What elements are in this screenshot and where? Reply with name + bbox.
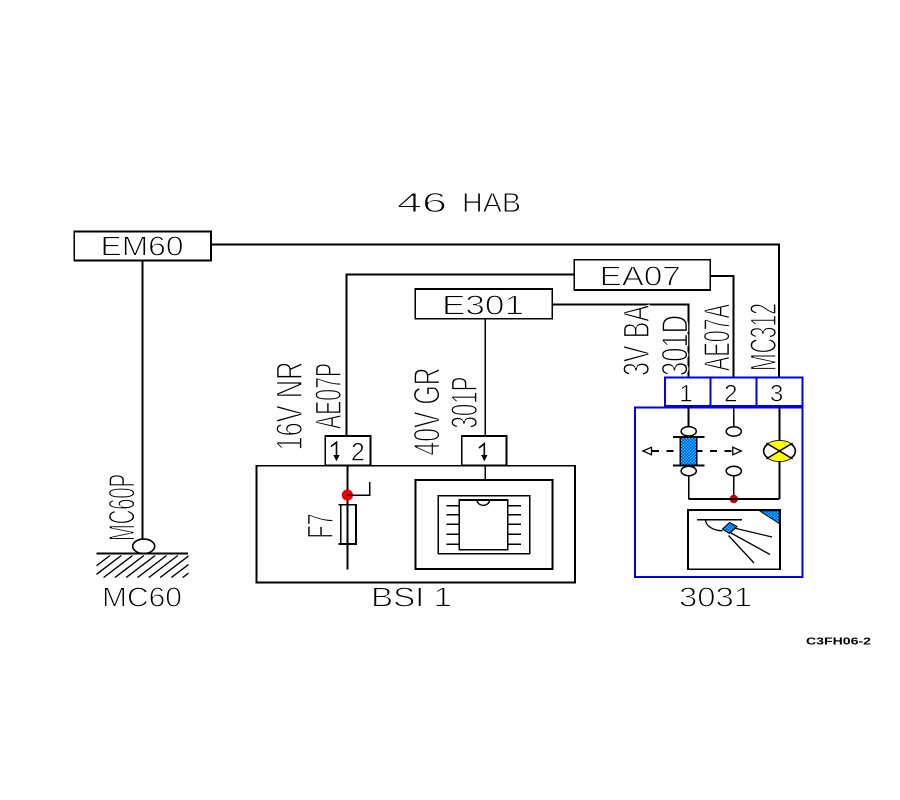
wire pin 2 to contact: [733, 406, 735, 427]
svg-text:46: 46: [397, 187, 447, 218]
svg-text:301P: 301P: [444, 377, 485, 429]
svg-text:3: 3: [770, 381, 783, 408]
svg-text:C3FH06-2: C3FH06-2: [806, 636, 871, 648]
wire BSI pin 1 to IC: [484, 465, 486, 480]
wire lamp to bus: [779, 461, 781, 499]
pin number 1 with arrow: [331, 442, 337, 456]
contact circle pin 2 bottom: [726, 466, 741, 475]
svg-text:16V NR: 16V NR: [269, 362, 310, 451]
connector pin 1 on BSI1 (to IC): [462, 436, 507, 465]
svg-text:3V BA: 3V BA: [616, 305, 657, 376]
ground MC60: [81, 539, 212, 577]
node EM60: [74, 231, 211, 262]
svg-text:AE07A: AE07A: [697, 304, 738, 371]
wire EA07 to pin 2 of 3031: [710, 276, 733, 378]
wire E301 to pin 1 of 3031: [552, 305, 688, 378]
wire EA07 to BSI1 connector: [347, 275, 575, 437]
svg-text:2: 2: [724, 381, 737, 408]
wire BSI pin to fuse F7: [346, 465, 348, 569]
contact circle pin 2 top: [726, 427, 741, 436]
svg-text:1: 1: [679, 381, 692, 408]
svg-text:F7: F7: [300, 514, 341, 539]
svg-text:MC60: MC60: [102, 581, 182, 612]
svg-text:40V GR: 40V GR: [407, 368, 448, 456]
pin number 1 with arrow: [479, 444, 484, 457]
IC block U1: [416, 480, 553, 569]
svg-text:301D: 301D: [655, 315, 696, 376]
ECU box BSI1: [256, 466, 575, 583]
junction node in 3031: [730, 495, 738, 503]
component 3031 box: [635, 408, 802, 577]
connector pins 1 2 on BSI1: [325, 436, 370, 467]
dashed adjustment arrow: [643, 447, 741, 455]
contact circle pin 1 top: [681, 427, 696, 436]
wire pin 3 to lamp: [779, 406, 781, 441]
svg-text:E301: E301: [442, 289, 524, 320]
svg-text:MC60P: MC60P: [102, 474, 143, 541]
connector 1 2 3 on 3031: [665, 377, 803, 407]
wire pin 1 to rheostat: [688, 406, 690, 427]
svg-text:HAB: HAB: [462, 187, 521, 218]
wire rheostat to bus: [688, 476, 690, 499]
fuse F7: [339, 505, 357, 544]
svg-text:3031: 3031: [679, 581, 752, 612]
interior lamp icon box: [688, 510, 780, 569]
svg-text:EA07: EA07: [600, 260, 681, 291]
junction node in BSI1: [342, 490, 353, 501]
contact circle pin 1 bottom: [681, 466, 696, 475]
node E301: [415, 289, 552, 320]
svg-text:BSI 1: BSI 1: [371, 581, 452, 612]
svg-text:EM60: EM60: [101, 231, 184, 262]
wire EM60 to ground: [142, 261, 144, 540]
rheostat (dimmer resistor): [673, 436, 705, 465]
svg-text:MC312: MC312: [743, 303, 784, 371]
wire pin 2 contact to bus: [733, 476, 735, 499]
svg-text:AE07P: AE07P: [308, 363, 349, 429]
wire E301 to BSI1 pin 1: [484, 319, 486, 437]
bus wire inside 3031: [689, 498, 780, 500]
lamp (illumination bulb): [764, 441, 796, 461]
svg-text:2: 2: [351, 439, 365, 467]
wire EM60 to pin 3 of 3031: [211, 245, 779, 378]
node EA07: [574, 260, 710, 292]
wire stub from junction: [347, 482, 369, 495]
